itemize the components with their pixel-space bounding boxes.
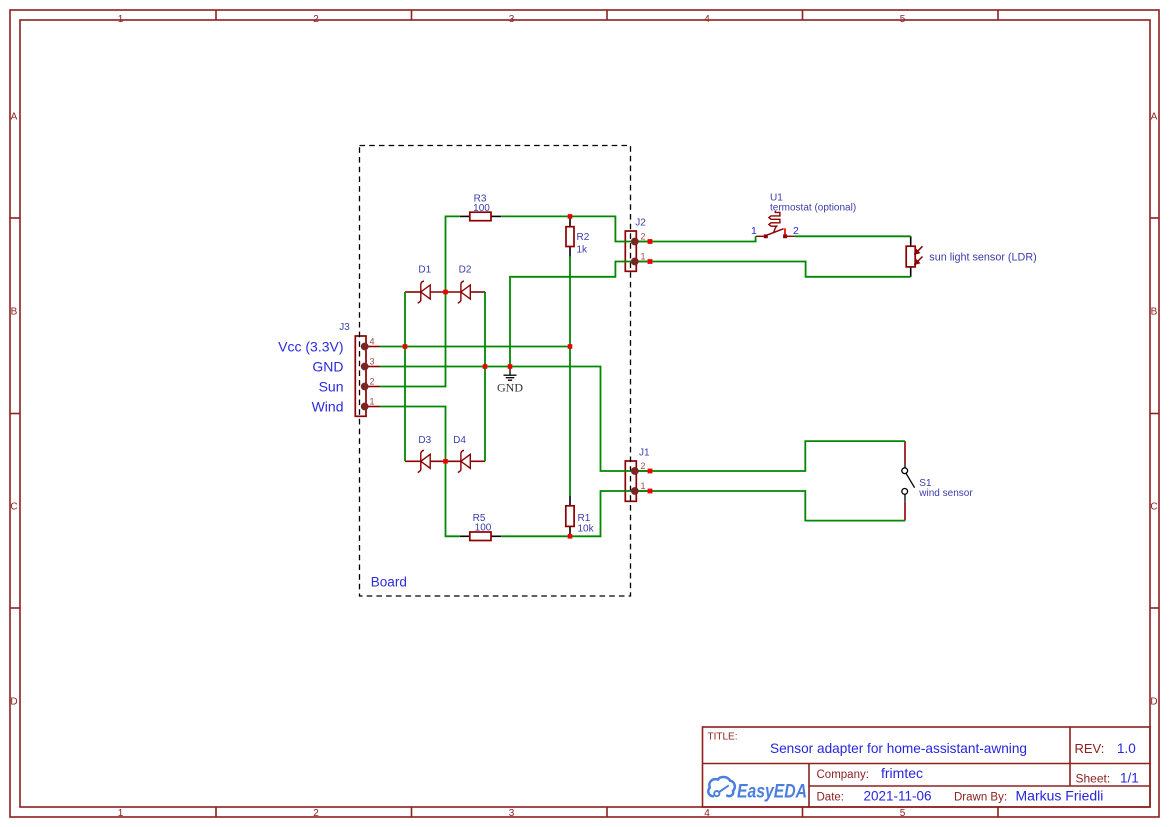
svg-text:TITLE:: TITLE: — [708, 732, 738, 743]
svg-text:J2: J2 — [635, 218, 646, 229]
svg-text:Vcc (3.3V): Vcc (3.3V) — [278, 339, 343, 355]
svg-text:1: 1 — [641, 481, 646, 491]
svg-text:Board: Board — [371, 575, 407, 590]
svg-text:Wind: Wind — [312, 399, 344, 415]
svg-text:D3: D3 — [418, 435, 431, 446]
svg-text:10k: 10k — [578, 524, 595, 535]
svg-text:Sheet:: Sheet: — [1076, 772, 1111, 786]
svg-text:D: D — [1150, 697, 1157, 708]
svg-text:GND: GND — [312, 359, 343, 375]
svg-text:C: C — [10, 502, 17, 513]
svg-text:D2: D2 — [459, 265, 472, 276]
svg-text:EasyEDA: EasyEDA — [737, 781, 807, 802]
svg-text:Date:: Date: — [817, 792, 845, 804]
svg-text:Sensor adapter for home-assist: Sensor adapter for home-assistant-awning — [770, 740, 1027, 756]
svg-text:4: 4 — [704, 808, 710, 819]
svg-text:5: 5 — [900, 14, 906, 25]
svg-text:2: 2 — [793, 225, 799, 237]
svg-text:1: 1 — [370, 397, 375, 407]
svg-text:A: A — [11, 112, 18, 123]
svg-text:C: C — [1150, 502, 1157, 513]
svg-text:100: 100 — [473, 203, 490, 214]
svg-text:termostat (optional): termostat (optional) — [770, 203, 856, 214]
svg-text:1: 1 — [641, 252, 646, 262]
svg-text:5: 5 — [900, 808, 906, 819]
svg-text:2: 2 — [641, 461, 646, 471]
svg-text:2: 2 — [370, 377, 375, 387]
svg-text:Company:: Company: — [817, 769, 869, 781]
svg-text:3: 3 — [509, 14, 515, 25]
svg-text:1: 1 — [118, 14, 124, 25]
svg-text:1: 1 — [118, 808, 124, 819]
svg-text:sun light sensor (LDR): sun light sensor (LDR) — [929, 252, 1036, 264]
svg-text:wind sensor: wind sensor — [918, 488, 973, 499]
svg-text:frimtec: frimtec — [881, 765, 923, 781]
svg-text:J1: J1 — [639, 448, 650, 459]
svg-text:1/1: 1/1 — [1120, 771, 1139, 786]
svg-text:REV:: REV: — [1075, 741, 1105, 756]
svg-text:2: 2 — [641, 232, 646, 242]
svg-text:D: D — [10, 697, 17, 708]
svg-text:R2: R2 — [577, 232, 590, 243]
svg-text:3: 3 — [509, 808, 515, 819]
svg-text:1.0: 1.0 — [1117, 741, 1136, 756]
svg-text:4: 4 — [370, 337, 375, 347]
svg-text:Sun: Sun — [319, 379, 344, 395]
svg-text:R1: R1 — [578, 513, 591, 524]
svg-text:A: A — [1151, 112, 1158, 123]
svg-text:2: 2 — [313, 808, 319, 819]
svg-text:1k: 1k — [577, 244, 589, 255]
svg-text:Drawn By:: Drawn By: — [954, 792, 1007, 804]
svg-text:Markus Friedli: Markus Friedli — [1016, 788, 1104, 804]
svg-text:4: 4 — [704, 14, 710, 25]
svg-text:J3: J3 — [339, 322, 350, 333]
svg-text:B: B — [11, 307, 18, 318]
svg-text:1: 1 — [751, 225, 757, 237]
svg-text:3: 3 — [370, 357, 375, 367]
svg-text:2: 2 — [313, 14, 319, 25]
svg-text:2021-11-06: 2021-11-06 — [864, 789, 932, 804]
svg-text:B: B — [1151, 307, 1158, 318]
svg-text:100: 100 — [475, 523, 492, 534]
svg-text:D4: D4 — [453, 435, 466, 446]
svg-text:GND: GND — [497, 381, 523, 395]
svg-text:D1: D1 — [418, 265, 431, 276]
